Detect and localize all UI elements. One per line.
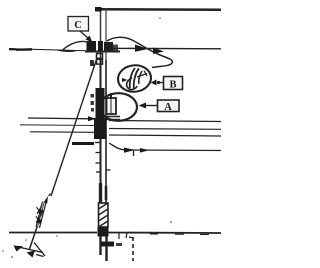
jumper curve from left wire up to crossarm [63,41,92,49]
splice blob on left wire [16,48,32,51]
lens splice blob near pole [56,50,77,52]
arrowhead of A leader [139,103,147,109]
detail circle A [100,93,137,121]
arrowhead on service drop 1 [124,148,135,153]
pole foot mark below ground [102,242,115,247]
small arrow inside circle B [122,78,128,82]
svg-text:B: B [169,79,176,90]
label box B [164,77,183,90]
hook tail of glyph [127,78,137,89]
ground line left [9,232,97,234]
pole darker segment [99,183,102,203]
wire: left line 1 (with arrowhead at pole) [28,117,90,120]
cylinder device inside circle A [107,98,117,114]
wire: right line 2 [109,128,221,131]
ground hatch ticks [118,233,120,239]
hatch marks under cylinder [104,117,120,120]
arrowhead at top of turnbuckle [44,196,49,204]
pole dark section around circle A [96,88,105,120]
arrowhead on service drop 2 [140,148,149,153]
ground line right [107,232,221,235]
leader from A box to circle [146,105,158,107]
crossarm black block at pole top [87,41,97,53]
svg-text:C: C [74,20,82,31]
wire: left line 2 [20,124,95,127]
anchor arrowhead center [27,251,36,258]
bracket below crossarm [97,54,103,59]
arrowhead on right wire 2 [153,48,164,55]
hatched ground-molding block on pole [99,203,109,227]
guy rod below turnbuckle [30,227,38,249]
wire: top horizontal line right of pole [95,8,221,11]
tick below service drop [133,150,135,156]
wire: left conductor [9,49,95,51]
svg-text:A: A [164,102,172,113]
dashed vertical below ground right of pole [129,237,133,238]
label box A [158,100,180,112]
pole step ticks [95,142,100,144]
wire: left line 3 [30,131,95,134]
wire: right line 3 [109,135,221,136]
label box C [68,17,89,32]
bolt marks left of pole [91,94,95,98]
wire: service drop curving from pole [109,143,221,151]
heavy short mark left of pole [72,142,94,145]
leader from B box to circle [159,82,164,84]
symbol inside circle B: slanted connector glyph [130,68,135,88]
pole below-ground black section [98,227,109,237]
speckle dots [159,17,161,19]
detail circle B [117,64,153,94]
jumper swoop curve from pole to detail circle B [107,37,172,67]
leader line from C [80,31,89,39]
turnbuckle on guy wire [36,202,46,229]
stem above cylinder [110,93,112,98]
anchor strokes [16,247,43,253]
arrowhead on right wire 1 [135,45,148,52]
arrowhead of C leader [86,36,93,43]
wire: right conductor [109,47,221,50]
arrowhead of B leader [151,80,157,86]
pole (two vertical lines) [100,8,102,61]
anchor arrowhead left [14,246,24,252]
wire: right line 1 [109,121,221,122]
cross tick on glyph [139,71,142,84]
guy wire [51,58,97,196]
